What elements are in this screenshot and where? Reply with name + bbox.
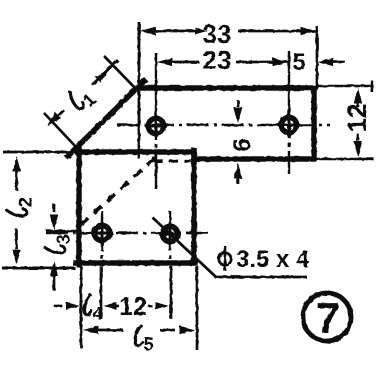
dimension l2 [12, 156, 21, 172]
node: arm holes centerline [117, 124, 330, 127]
svg-text:12: 12 [342, 104, 372, 133]
dimension 23 [157, 58, 173, 67]
wire: plate top edge [75, 149, 196, 155]
hole D (plate right) [162, 226, 177, 241]
wire: ext line l2/l3 bottom [2, 267, 75, 270]
wire: ext line hole C down [100, 266, 103, 319]
node: arm hole A vertical centerline [155, 53, 157, 140]
wire: ext line plate left bottom [80, 266, 83, 348]
wire: ext line l1 upper [104, 56, 136, 89]
wire: chamfer edge [66, 79, 146, 158]
node: plate holes centerline [46, 232, 208, 235]
svg-text:23: 23 [203, 45, 232, 75]
node: plate hole D vertical centerline [169, 211, 171, 251]
svg-text:3.5 x 4: 3.5 x 4 [236, 246, 310, 273]
wire: ext line l1 lower [44, 113, 77, 148]
svg-text:6: 6 [229, 138, 256, 151]
wire: ext line l2 top [3, 151, 77, 154]
wire: ext line hole D down [170, 266, 173, 319]
svg-text:2: 2 [16, 197, 36, 207]
wire: ext line l3 top (centerline stub) [46, 230, 78, 232]
dimension l1 [47, 112, 61, 126]
dimension l5 [83, 326, 99, 335]
dimension 6 [237, 100, 240, 107]
hole B (arm right) [281, 117, 296, 132]
node: plate hole C vertical centerline [101, 211, 103, 251]
label phi 3.5 x 4 [219, 253, 231, 265]
hole A (arm left) [148, 118, 163, 133]
svg-text:5: 5 [292, 49, 305, 76]
wire: hidden edge (dashed) [154, 159, 191, 162]
wire: arm top edge [135, 85, 316, 91]
svg-text:12: 12 [119, 293, 147, 321]
wire: bend line (dashed) [78, 158, 155, 227]
wire: ext line plate right bottom [196, 266, 199, 350]
dimension 12 (bottom) [103, 302, 117, 310]
dimension l3 [53, 204, 56, 212]
dimension 12 (right) [354, 88, 363, 104]
wire: plate left edge [76, 145, 82, 267]
wire: arm right edge [311, 86, 317, 161]
dimension 33 [140, 27, 156, 36]
dimension l4 [54, 305, 62, 308]
wire: ext line 12 top right [318, 85, 374, 87]
balloon 7 [303, 293, 351, 341]
wire: plate bottom edge [73, 260, 198, 266]
svg-text:4: 4 [93, 304, 103, 324]
hole C (plate left) [94, 225, 109, 240]
node: arm hole B vertical centerline [288, 51, 290, 138]
wire: ext line 33/5 right [316, 26, 319, 90]
leader line for hole callout [153, 218, 216, 277]
svg-text:3: 3 [54, 234, 74, 244]
wire: ext line 33 left [138, 22, 141, 159]
svg-text:5: 5 [144, 335, 154, 355]
wire: arm bottom edge [192, 156, 316, 162]
wire: ext line 12 bottom right [316, 158, 374, 160]
svg-text:7: 7 [316, 294, 340, 343]
wire: plate right edge [191, 148, 197, 265]
hole A cross ticks [145, 125, 167, 128]
